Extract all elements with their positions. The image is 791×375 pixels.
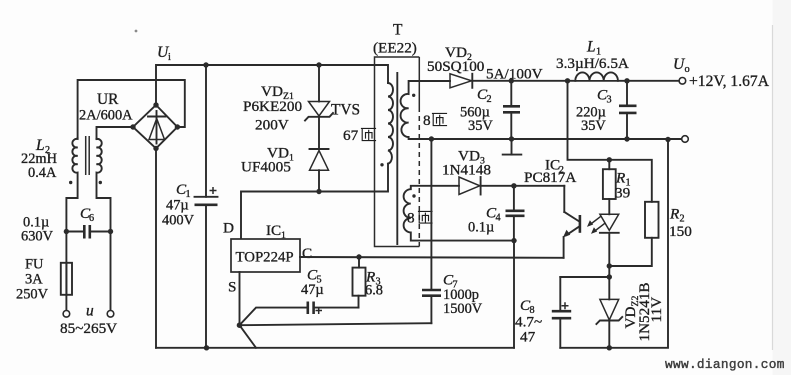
svg-text:R: R (669, 206, 680, 223)
svg-text:UF4005: UF4005 (241, 159, 291, 176)
C1 junction dots (203, 62, 209, 350)
svg-text:3A: 3A (25, 272, 43, 288)
junction dots bridge vertices (130, 102, 180, 151)
capacitor C5 (308, 302, 359, 315)
svg-text:35V: 35V (581, 118, 606, 134)
C6 junction dots (64, 229, 114, 234)
svg-text:67: 67 (343, 127, 359, 144)
scan artifact band right edge (773, 0, 791, 375)
input terminal left (63, 311, 70, 318)
svg-text:150: 150 (669, 223, 692, 240)
diode VD1 UF4005 (310, 149, 329, 192)
junction dot R3 top (356, 254, 361, 259)
svg-text:C: C (302, 245, 312, 262)
junction dot VDZ1 top (316, 62, 321, 67)
label Uo (673, 56, 690, 75)
label VD3 (458, 148, 485, 167)
svg-text:6.8: 6.8 (365, 283, 383, 299)
junction dot R1 top (607, 157, 612, 162)
svg-text:6: 6 (89, 213, 94, 224)
svg-text:FU: FU (25, 257, 44, 273)
label L2 (35, 137, 50, 156)
svg-text:(EE22): (EE22) (373, 40, 417, 57)
wire: UR outer loop top/left to choke left winding (78, 80, 185, 138)
label C5 (307, 267, 322, 286)
svg-text:47µ: 47µ (301, 282, 324, 298)
bridge UR inner diode (148, 111, 166, 144)
node Ui label (157, 44, 171, 63)
junction dot C4 bottom (511, 238, 516, 243)
label VDZ1 (261, 83, 294, 102)
svg-text:PC817A: PC817A (524, 169, 576, 186)
svg-text:T: T (393, 22, 403, 39)
L2 phase dots (69, 181, 102, 184)
wire: left leg down through fuse (65, 232, 67, 311)
svg-text:250V: 250V (16, 287, 49, 303)
wire: bridge bottom to ground rail (155, 148, 157, 347)
capacitor C8 (552, 277, 610, 348)
svg-text:1: 1 (281, 230, 286, 241)
C2 stub bar below rail (503, 139, 522, 155)
svg-text:5A/100V: 5A/100V (486, 66, 543, 83)
svg-text:8: 8 (407, 210, 415, 227)
svg-text:UR: UR (97, 91, 119, 108)
inductor L2 right winding (97, 139, 111, 232)
junction dots LED node (607, 263, 612, 279)
inductor L2 left winding (66, 138, 77, 232)
label IC2 (545, 157, 564, 176)
IC1 TOP224P box (231, 239, 300, 272)
label 67 turns (343, 127, 376, 144)
label L1 (586, 39, 601, 58)
capacitor C7 (422, 139, 441, 323)
capacitor C6 (66, 225, 110, 239)
opto IC2 LED (600, 214, 619, 299)
label C1 (176, 181, 191, 200)
wire: C pin line to opto emitter (300, 256, 564, 259)
label C7 (443, 272, 458, 291)
svg-text:D: D (223, 220, 234, 237)
label 1N5241B vertical (636, 282, 653, 341)
svg-text:L: L (586, 39, 596, 56)
label R3 (365, 269, 381, 288)
aux phase dot (412, 194, 415, 197)
wire: +12V feedback tap down to R1/R2 line (568, 81, 652, 202)
transformer secondary winding 8 turns (output) (401, 81, 682, 139)
junction dot VD3/C4 (511, 183, 516, 188)
capacitor C4 (506, 186, 525, 241)
svg-text:50SQ100: 50SQ100 (427, 58, 485, 75)
label VD2 (445, 44, 472, 63)
wire: S pin to source node (239, 272, 241, 325)
output terminal minus (682, 136, 689, 143)
resistor R3 (353, 257, 366, 308)
ground rail primary bottom (156, 347, 514, 349)
TVS VDZ1 P6KE200 (305, 65, 333, 149)
svg-text:TVS: TVS (331, 102, 360, 119)
wire: source node fan to ground rail (240, 325, 257, 348)
svg-text:35V: 35V (468, 118, 493, 134)
wire: source node fan to C5 line (240, 308, 308, 326)
label C8 (520, 297, 535, 316)
label VDZ2 vertical (622, 296, 641, 329)
input terminal right (107, 311, 114, 318)
wire: source node to C7 bottom (240, 323, 432, 325)
zener VDZ2 1N5241B (596, 299, 622, 347)
inductor L1 (574, 72, 619, 80)
svg-text:2A/600A: 2A/600A (79, 108, 133, 124)
junction dot drain/VD1 (316, 189, 321, 194)
svg-text:47µ: 47µ (166, 198, 189, 214)
svg-text:i: i (168, 52, 171, 63)
opto light arrows (587, 216, 606, 234)
primary phase dot (380, 163, 383, 166)
svg-text:+12V, 1.67A: +12V, 1.67A (689, 73, 770, 90)
capacitor C3 (619, 81, 637, 139)
label 8 turns upper (423, 112, 447, 129)
label C3 (597, 87, 612, 106)
source node dot (237, 322, 243, 328)
scan speck (135, 30, 138, 33)
svg-text:IC: IC (266, 222, 281, 239)
resistor R2 (645, 202, 659, 238)
label C4 (486, 205, 501, 224)
svg-text:TOP224P: TOP224P (236, 250, 294, 266)
wire: right input leg (110, 232, 112, 311)
wire: bridge left vertex to choke right winding (97, 127, 134, 139)
output rail junction dots (429, 78, 671, 142)
svg-text:400V: 400V (162, 213, 195, 229)
bridge rectifier UR diamond (133, 105, 177, 148)
label C6 (80, 205, 94, 224)
svg-text:www.diangon.com: www.diangon.com (665, 357, 785, 372)
capacitor C1 electrolytic (195, 65, 218, 348)
output terminal plus (679, 78, 686, 85)
svg-text:S: S (228, 279, 236, 296)
svg-text:8: 8 (423, 112, 431, 129)
L2 core lines (86, 136, 90, 175)
svg-text:4: 4 (496, 213, 501, 224)
svg-text:0.1µ: 0.1µ (468, 220, 494, 236)
wire: secondary ground bottom line (560, 140, 668, 348)
svg-text:2: 2 (487, 94, 492, 105)
transformer T box outline (375, 57, 420, 247)
label VD1 (267, 145, 294, 164)
transformer core line solid (396, 73, 398, 244)
svg-text:630V: 630V (21, 229, 54, 245)
label R1 (615, 170, 631, 189)
svg-text:39: 39 (615, 185, 630, 202)
wire: Ui top rail from bridge top to transformer primary (156, 65, 388, 105)
svg-text:u: u (86, 303, 94, 320)
wire: R2 bottom to LED cathode node (609, 238, 652, 266)
svg-text:P6KE200: P6KE200 (243, 98, 302, 115)
label R2 (669, 206, 685, 225)
resistor R1 (603, 160, 616, 215)
wire: drain line D pin to primary bottom (241, 164, 388, 239)
svg-text:1N4148: 1N4148 (442, 162, 491, 179)
label IC1 (266, 222, 286, 241)
label C2 (477, 86, 492, 105)
svg-text:1500V: 1500V (443, 301, 483, 317)
svg-text:3: 3 (607, 95, 612, 106)
svg-text:47: 47 (520, 329, 536, 346)
opto IC2 phototransistor (563, 186, 580, 258)
svg-text:0.4A: 0.4A (28, 165, 57, 181)
secondary phase dot (412, 94, 415, 97)
transformer primary winding 67 turns (388, 83, 393, 164)
svg-text:200V: 200V (255, 117, 289, 134)
svg-text:85~265V: 85~265V (60, 320, 117, 337)
transformer aux winding 8 turns (bias) (404, 186, 514, 241)
capacitor C2 (503, 81, 520, 139)
wire: aux/C4 ground return down to rail (513, 241, 515, 348)
label 11V vertical (648, 297, 665, 323)
svg-text:11V: 11V (648, 297, 665, 323)
diode VD3 1N4148 (459, 177, 564, 195)
label 8 turns lower (407, 210, 432, 227)
diode VD2 50SQ100 (450, 74, 679, 88)
fuse FU body (61, 263, 72, 295)
junction dot zener bottom (607, 345, 612, 350)
svg-text:3.3µH/6.5A: 3.3µH/6.5A (556, 55, 629, 72)
